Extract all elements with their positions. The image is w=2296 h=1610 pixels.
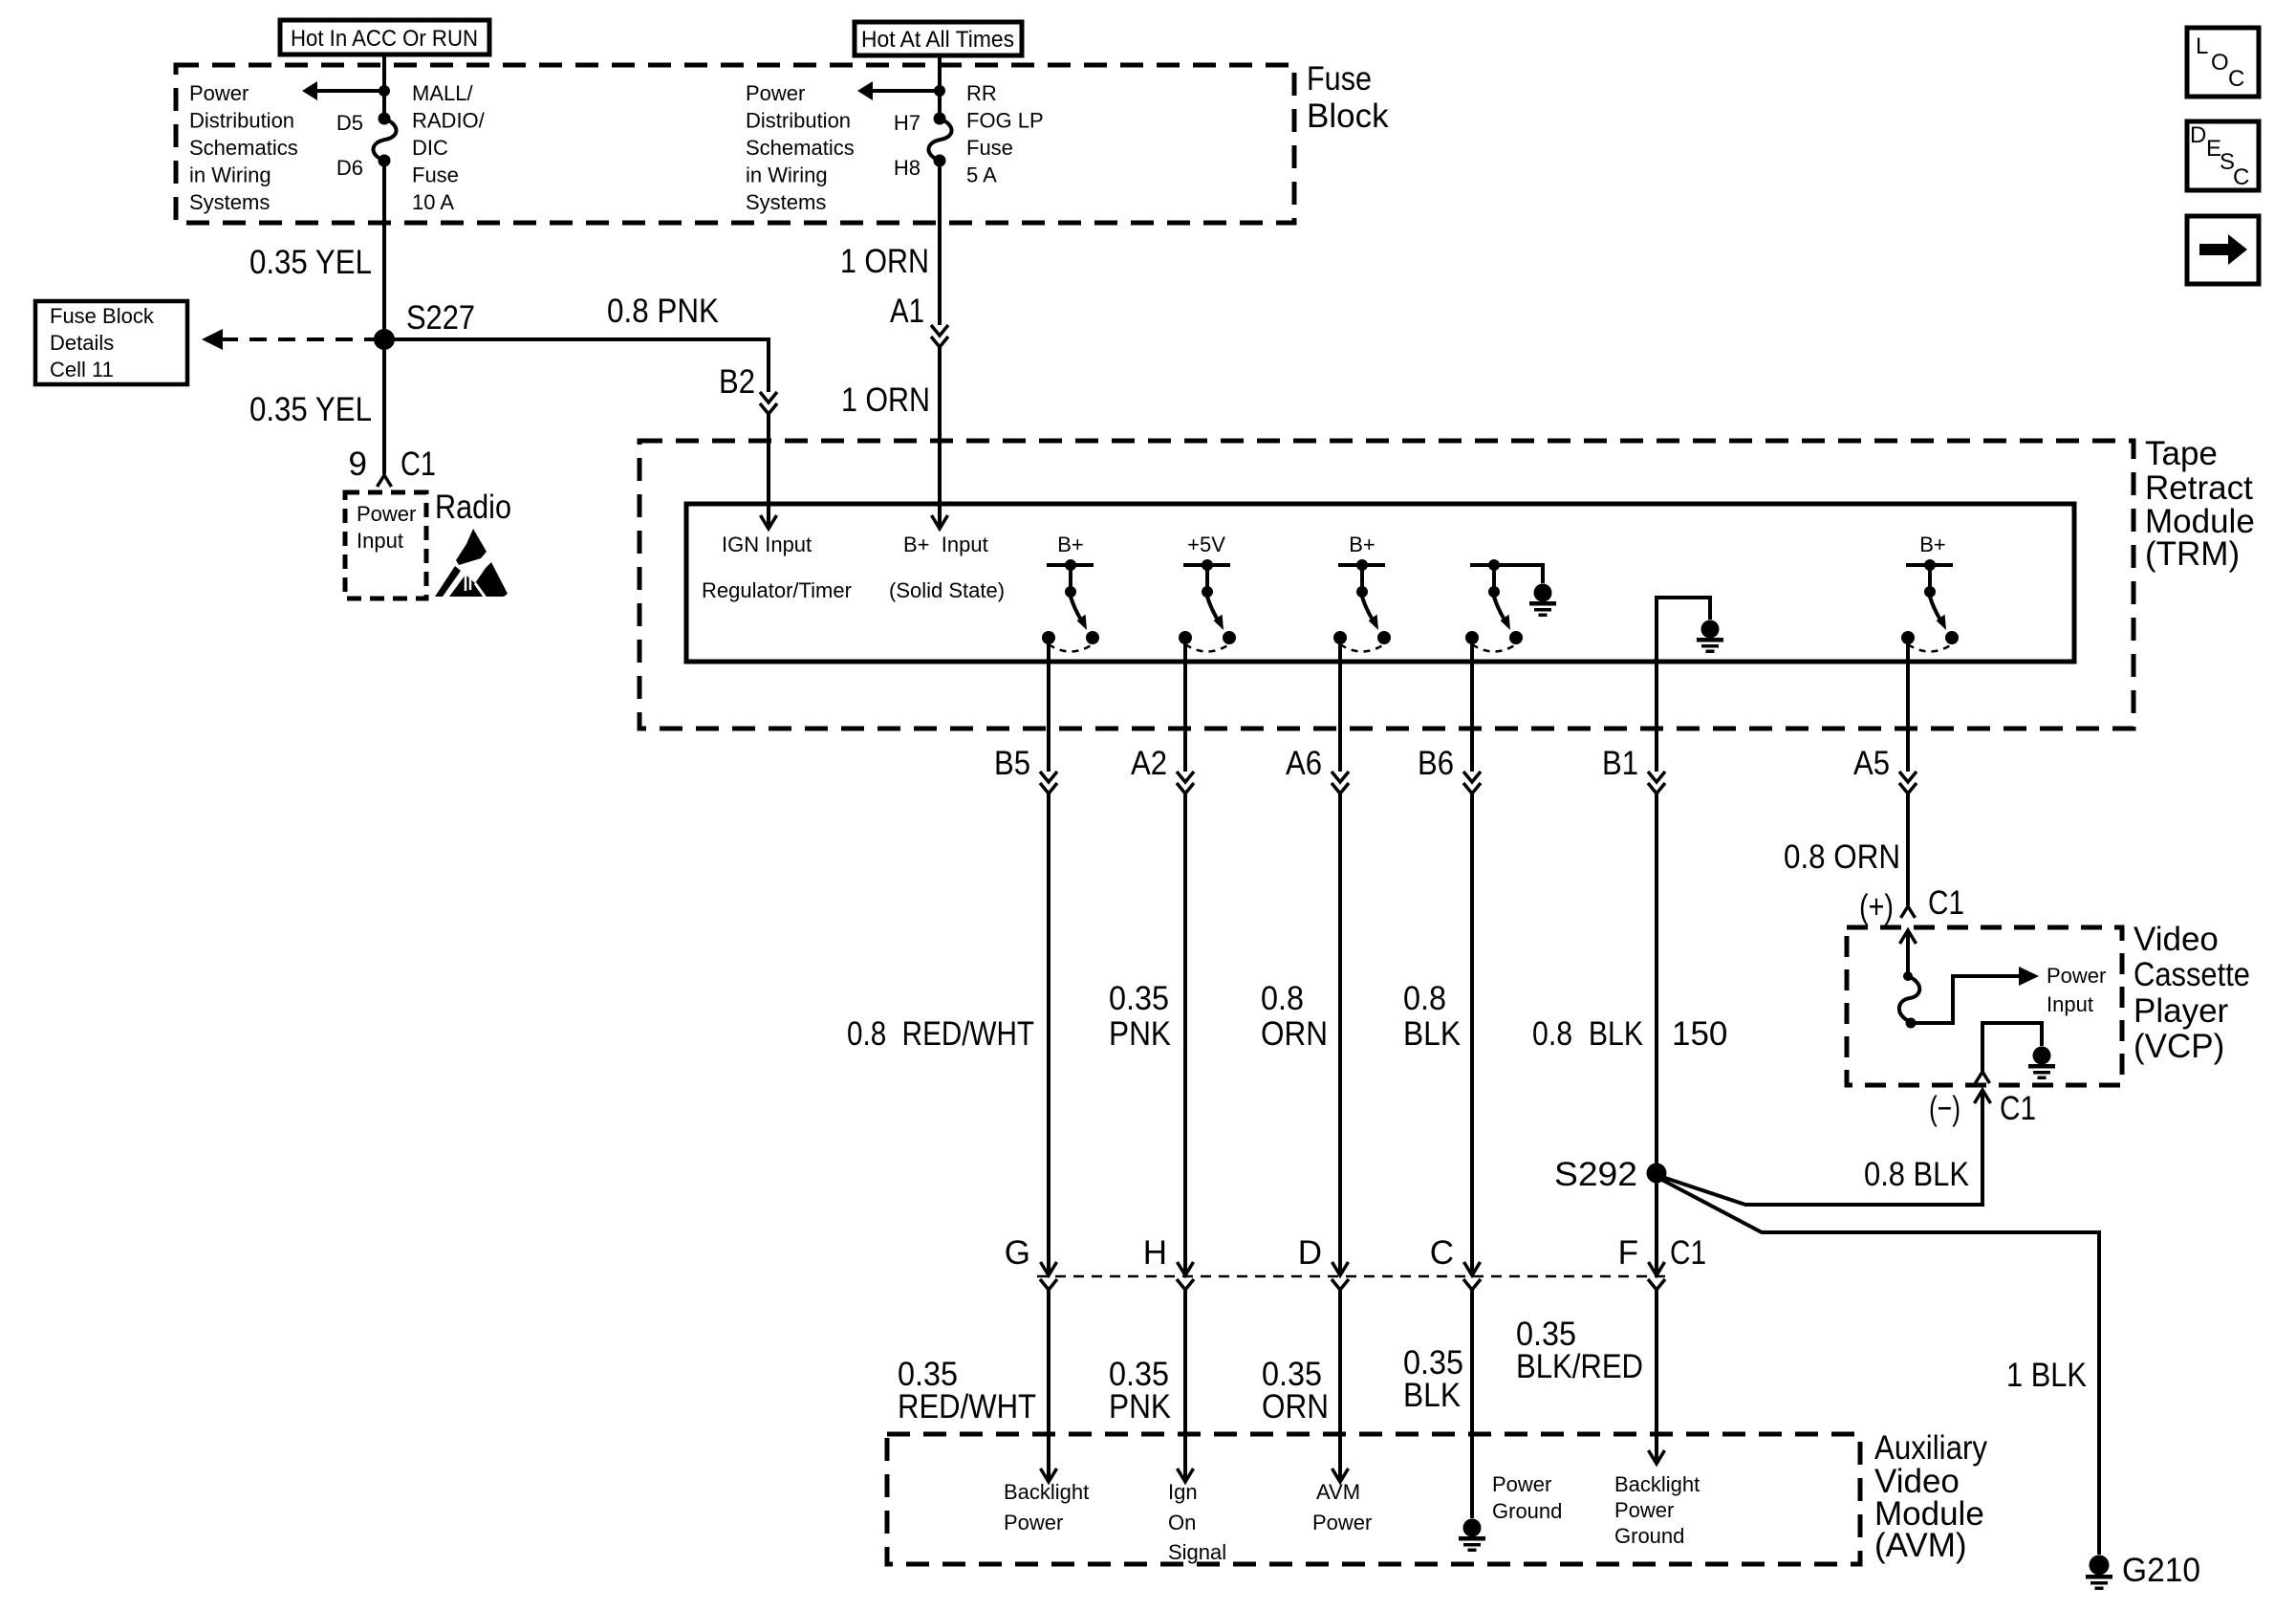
connector pin F chevron — [1648, 1279, 1665, 1290]
svg-text:G: G — [1005, 1234, 1030, 1272]
wire: F into AVM — [1655, 1290, 1658, 1464]
connector pin C chevron — [1463, 1279, 1481, 1290]
label: 0.8 BLK (mid) — [1403, 980, 1461, 1053]
label: Backlight Power — [1004, 1480, 1089, 1534]
arrow up into VCP (-) C1 — [1975, 1090, 1991, 1103]
svg-text:RED/WHT: RED/WHT — [898, 1388, 1036, 1425]
connector: A5 double chevron — [1899, 772, 1917, 794]
node: junction to power distribution arrow — [379, 85, 390, 97]
switch 2 (A2 output) — [1179, 559, 1236, 652]
legend box forward arrow — [2187, 216, 2259, 284]
label: 0.35 PNK (lower) — [1109, 1356, 1171, 1425]
svg-text:10 A: 10 A — [412, 190, 454, 214]
svg-text:C1: C1 — [401, 446, 436, 483]
svg-text:B+: B+ — [1349, 533, 1375, 556]
svg-text:Fuse: Fuse — [412, 163, 459, 187]
label: 0.35 PNK (mid) — [1109, 980, 1171, 1053]
arrow into AVM (F) — [1649, 1450, 1665, 1464]
connector pin H arrowhead — [1178, 1262, 1194, 1275]
svg-text:Player: Player — [2134, 992, 2229, 1030]
switch 6 (A5 output) — [1901, 559, 1959, 652]
connector pin G arrowhead — [1041, 1262, 1057, 1275]
label: Power Ground — [1492, 1472, 1562, 1523]
fuse block label — [1307, 60, 1389, 135]
svg-text:Schematics: Schematics — [746, 136, 855, 160]
wire: to Power Input arrow — [1911, 976, 2023, 1023]
fuse block dashed outline — [176, 65, 1294, 223]
svg-text:Schematics: Schematics — [189, 136, 298, 160]
connector pin F arrowhead — [1649, 1262, 1665, 1275]
svg-text:0.35 YEL: 0.35 YEL — [249, 244, 372, 281]
wire: Hot At All Times drop to fuse H7 — [938, 55, 942, 119]
svg-text:+5V: +5V — [1187, 533, 1225, 556]
AVM label: Auxiliary Video Module (AVM) — [1874, 1429, 1987, 1564]
svg-text:D: D — [2190, 122, 2206, 148]
connector: A1 double chevron — [931, 325, 948, 347]
switch 4 (B6 output, grounded) — [1465, 559, 1523, 652]
label: Power Input (VCP) — [2047, 964, 2106, 1016]
svg-text:H7: H7 — [894, 111, 921, 135]
svg-text:Fuse: Fuse — [1307, 60, 1372, 98]
svg-text:(+): (+) — [1859, 888, 1894, 925]
label: Ign On Signal — [1168, 1480, 1226, 1564]
wire: 1 BLK from S292 to G210 — [1658, 1178, 2099, 1555]
wire: dashed reference arrow from S227 to Fuse Block Details — [202, 329, 381, 350]
TRM dashed outline — [639, 441, 2134, 729]
svg-text:0.8 BLK: 0.8 BLK — [1532, 1015, 1643, 1053]
svg-text:B+: B+ — [1057, 533, 1084, 556]
svg-text:Regulator/Timer: Regulator/Timer — [702, 578, 852, 602]
svg-text:Power: Power — [1312, 1511, 1372, 1534]
wire: arrow to Power Distribution Schematics (right) — [857, 81, 940, 100]
svg-text:Fuse Block: Fuse Block — [50, 304, 155, 328]
svg-text:D: D — [1298, 1234, 1322, 1272]
svg-text:Ign: Ign — [1168, 1480, 1198, 1504]
svg-text:RADIO/: RADIO/ — [412, 109, 486, 133]
ground G210 — [2086, 1556, 2112, 1591]
fuse: RR FOG LP 5A (terminals H7/H8) — [928, 113, 951, 167]
svg-text:ORN: ORN — [1262, 1388, 1329, 1425]
connector: B2 double chevron — [760, 392, 777, 414]
wire: 1 ORN from fuse H8 to A1 — [938, 161, 942, 325]
arrow into B+ Input — [932, 515, 948, 529]
TRM solid inner box — [686, 504, 2074, 662]
svg-text:FOG LP: FOG LP — [966, 109, 1044, 133]
wire: B1 internal ground link — [1657, 598, 1710, 664]
svg-text:Block: Block — [1307, 98, 1389, 135]
svg-text:B+ Input: B+ Input — [903, 533, 988, 556]
svg-text:Systems: Systems — [746, 190, 826, 214]
svg-text:B+: B+ — [1919, 533, 1946, 556]
wire: A2/H run to AVM C1 — [1183, 794, 1187, 1275]
ESD sensitivity symbol — [435, 529, 508, 603]
svg-text:1 BLK: 1 BLK — [2006, 1357, 2087, 1394]
svg-text:Power: Power — [189, 81, 249, 105]
svg-text:PNK: PNK — [1109, 1015, 1171, 1053]
svg-text:Signal: Signal — [1168, 1540, 1226, 1564]
arrowhead into Power Input — [2019, 967, 2039, 986]
arrow up into VCP from (+) C1 — [1900, 930, 1917, 944]
svg-text:Hot In ACC Or RUN: Hot In ACC Or RUN — [291, 26, 478, 52]
arrow into AVM (H) — [1178, 1469, 1194, 1482]
wire: H into AVM — [1183, 1290, 1187, 1482]
AVM C1 connector dashed line — [1037, 1275, 1665, 1278]
svg-text:B5: B5 — [994, 745, 1030, 782]
label: Power Distribution Schematics in Wiring Systems (right) — [746, 81, 855, 214]
svg-text:Cassette: Cassette — [2134, 956, 2250, 993]
label: 0.8 ORN (mid) — [1261, 980, 1328, 1053]
svg-text:Distribution: Distribution — [746, 109, 851, 133]
svg-text:Distribution: Distribution — [189, 109, 294, 133]
connector fork at radio power input — [378, 475, 392, 487]
svg-text:BLK: BLK — [1403, 1377, 1461, 1414]
svg-text:Power: Power — [1614, 1498, 1674, 1522]
arrow into IGN Input — [761, 515, 777, 529]
svg-text:H: H — [1143, 1234, 1167, 1272]
svg-text:D6: D6 — [336, 156, 363, 180]
label: RR FOG LP Fuse 5 A — [966, 81, 1044, 187]
wire: D into AVM — [1338, 1290, 1342, 1482]
svg-text:1 ORN: 1 ORN — [841, 381, 930, 419]
svg-text:Video: Video — [2134, 921, 2219, 958]
wire: 0.8 BLK from S292 to VCP (-) — [1659, 1090, 1982, 1205]
VCP label: Video Cassette Player (VCP) — [2134, 921, 2250, 1065]
svg-text:Power: Power — [1004, 1511, 1063, 1534]
svg-text:Cell 11: Cell 11 — [50, 358, 114, 381]
svg-text:C: C — [2228, 66, 2244, 92]
svg-text:(Solid State): (Solid State) — [889, 578, 1005, 602]
label: 0.35 BLK (lower) — [1403, 1344, 1463, 1414]
connector: B5 double chevron — [1040, 772, 1057, 794]
wire: Hot In ACC Or RUN drop to fuse D5 — [382, 54, 386, 119]
ground (TRM B1) — [1697, 620, 1723, 654]
wire: TRM output B5 — [1047, 638, 1051, 772]
svg-text:C1: C1 — [1928, 884, 1964, 922]
svg-text:0.8 BLK: 0.8 BLK — [1864, 1156, 1969, 1193]
svg-text:S292: S292 — [1554, 1156, 1637, 1193]
svg-text:Power: Power — [746, 81, 805, 105]
VCP dashed outline — [1847, 927, 2122, 1085]
wire: C into AVM to ground — [1470, 1290, 1474, 1518]
svg-text:BLK/RED: BLK/RED — [1516, 1348, 1643, 1385]
header box: Hot At All Times — [855, 22, 1022, 55]
svg-text:(VCP): (VCP) — [2134, 1028, 2224, 1065]
svg-text:in Wiring: in Wiring — [189, 163, 271, 187]
wire: A1 into TRM B+ input — [938, 347, 942, 528]
svg-text:0.8 RED/WHT: 0.8 RED/WHT — [847, 1015, 1034, 1053]
svg-text:0.35 YEL: 0.35 YEL — [249, 391, 372, 428]
svg-text:D5: D5 — [336, 111, 363, 135]
AVM dashed outline — [887, 1434, 1860, 1564]
svg-text:in Wiring: in Wiring — [746, 163, 828, 187]
switch 3 (A6 output) — [1333, 559, 1391, 652]
svg-text:G210: G210 — [2122, 1552, 2200, 1589]
svg-text:MALL/: MALL/ — [412, 81, 473, 105]
connector pin D chevron — [1332, 1279, 1349, 1290]
TRM label: Tape Retract Module (TRM) — [2145, 435, 2255, 573]
svg-text:0.8 PNK: 0.8 PNK — [607, 293, 719, 330]
svg-text:9: 9 — [349, 446, 367, 483]
svg-text:Fuse: Fuse — [966, 136, 1013, 160]
ground (VCP internal) — [2028, 1047, 2055, 1080]
svg-text:Radio: Radio — [435, 489, 511, 526]
wire: TRM output A6 — [1338, 638, 1342, 772]
svg-text:(TRM): (TRM) — [2145, 535, 2240, 573]
svg-text:Auxiliary: Auxiliary — [1874, 1429, 1987, 1467]
svg-text:PNK: PNK — [1109, 1388, 1171, 1425]
connector pin D arrowhead — [1332, 1262, 1349, 1275]
svg-text:Details: Details — [50, 331, 114, 355]
wire: B6/C run to AVM C1 — [1470, 794, 1474, 1275]
connector fork at VCP (-) C1 — [1976, 1072, 1990, 1083]
svg-text:Power: Power — [2047, 964, 2106, 988]
svg-text:Retract: Retract — [2145, 469, 2253, 507]
svg-text:H8: H8 — [894, 156, 921, 180]
wire: A6/D run to AVM C1 — [1338, 794, 1342, 1275]
svg-text:B1: B1 — [1602, 745, 1638, 782]
box: radio power input (dashed) — [345, 492, 426, 598]
label: Power Distribution Schematics in Wiring Systems (left) — [189, 81, 298, 214]
svg-text:A5: A5 — [1853, 745, 1890, 782]
svg-text:Hot At All Times: Hot At All Times — [861, 27, 1014, 53]
svg-text:IGN Input: IGN Input — [722, 533, 812, 556]
connector pin H chevron — [1177, 1279, 1194, 1290]
box: Fuse Block Details Cell 11 — [35, 301, 187, 384]
svg-text:Backlight: Backlight — [1004, 1480, 1089, 1504]
svg-text:Input: Input — [2047, 992, 2093, 1016]
wire: switch 4 bar to internal ground — [1517, 565, 1543, 583]
wire: TRM output A5 — [1906, 638, 1910, 772]
svg-text:AVM: AVM — [1316, 1480, 1360, 1504]
connector: B6 double chevron — [1463, 772, 1481, 794]
ground (AVM power ground) — [1459, 1519, 1485, 1553]
connector pin C arrowhead — [1464, 1262, 1481, 1275]
svg-text:A1: A1 — [890, 293, 924, 330]
fuse: MALL/RADIO/DIC 10A (terminals D5/D6) — [373, 113, 396, 167]
wire: B5/G run to AVM C1 — [1047, 794, 1051, 1275]
wire: G into AVM — [1047, 1290, 1051, 1482]
svg-text:DIC: DIC — [412, 136, 448, 160]
label: AVM Power — [1312, 1480, 1372, 1534]
svg-text:O: O — [2211, 50, 2229, 76]
svg-text:Systems: Systems — [189, 190, 270, 214]
wire: VCP internal feed — [1906, 930, 1910, 976]
legend box DESC — [2187, 121, 2259, 190]
header box: Hot In ACC Or RUN — [280, 20, 489, 54]
svg-text:(−): (−) — [1929, 1090, 1960, 1127]
wire: 0.8 PNK from S227 right and down to B2 — [384, 339, 769, 392]
node S227 — [374, 329, 395, 350]
svg-text:5 A: 5 A — [966, 163, 997, 187]
wire: arrow to Power Distribution Schematics (left) — [302, 81, 384, 100]
wire: VCP ground branch — [1982, 1023, 2042, 1072]
label: 0.35 RED/WHT — [898, 1356, 1036, 1425]
wire: 0.35 YEL from fuse D6 to S227 — [382, 161, 386, 339]
fuse squiggle inside VCP — [1899, 971, 1919, 1029]
wire: TRM output B1 — [1655, 638, 1658, 772]
svg-text:Ground: Ground — [1492, 1499, 1562, 1523]
arrow into AVM (D) — [1332, 1469, 1349, 1482]
svg-text:C: C — [1430, 1234, 1454, 1272]
label: MALL/RADIO/DIC Fuse 10 A — [412, 81, 486, 214]
label: 0.35 ORN (lower) — [1262, 1356, 1329, 1425]
svg-text:0.35: 0.35 — [1109, 980, 1169, 1017]
svg-text:Backlight: Backlight — [1614, 1472, 1700, 1496]
svg-text:1 ORN: 1 ORN — [840, 243, 929, 280]
svg-text:F: F — [1618, 1234, 1638, 1272]
svg-text:B2: B2 — [719, 363, 755, 401]
svg-text:ORN: ORN — [1261, 1015, 1328, 1053]
svg-text:Power: Power — [357, 502, 416, 526]
svg-text:L: L — [2196, 33, 2208, 59]
connector: A6 double chevron — [1332, 772, 1349, 794]
svg-text:RR: RR — [966, 81, 997, 105]
connector fork at VCP (+) C1 — [1901, 906, 1916, 918]
arrow into AVM (G) — [1041, 1469, 1057, 1482]
connector: A2 double chevron — [1177, 772, 1194, 794]
connector: B1 double chevron — [1648, 772, 1665, 794]
svg-text:C1: C1 — [1670, 1234, 1706, 1272]
wire: B1/F continues from S292 to AVM C1 — [1655, 1173, 1658, 1275]
wire: B2 into TRM IGN input — [767, 414, 770, 528]
connector pin G chevron — [1040, 1279, 1057, 1290]
switch 1 (B5 output) — [1042, 559, 1099, 652]
label: 0.8 BLK 150 — [1532, 1015, 1727, 1053]
svg-text:BLK: BLK — [1403, 1015, 1461, 1053]
svg-text:Power: Power — [1492, 1472, 1551, 1496]
node: junction to power distribution arrow (right) — [934, 85, 945, 97]
svg-text:(AVM): (AVM) — [1874, 1527, 1967, 1564]
wire: A5 run to VCP (+) C1 — [1906, 794, 1910, 905]
svg-text:C: C — [2233, 164, 2249, 190]
wire: 0.35 YEL from S227 to radio connector — [382, 339, 386, 474]
wire: TRM output B6 — [1470, 638, 1474, 772]
wire: TRM output A2 — [1183, 638, 1187, 772]
ground (TRM switch 4) — [1529, 584, 1556, 618]
svg-text:C1: C1 — [2000, 1090, 2036, 1127]
svg-text:Ground: Ground — [1614, 1524, 1684, 1548]
svg-text:0.8: 0.8 — [1261, 980, 1304, 1017]
node S292 — [1647, 1164, 1667, 1184]
svg-text:S227: S227 — [406, 299, 475, 337]
svg-text:A2: A2 — [1131, 745, 1167, 782]
svg-text:150: 150 — [1672, 1015, 1727, 1053]
label: Backlight Power Ground — [1614, 1472, 1700, 1548]
svg-text:On: On — [1168, 1511, 1196, 1534]
wire: B1 run to S292 — [1655, 794, 1658, 1173]
svg-text:0.8: 0.8 — [1403, 980, 1446, 1017]
svg-text:B6: B6 — [1418, 745, 1454, 782]
legend box LOC — [2187, 28, 2259, 97]
svg-text:A6: A6 — [1286, 745, 1322, 782]
svg-text:0.8 ORN: 0.8 ORN — [1784, 838, 1900, 876]
svg-text:Input: Input — [357, 529, 403, 553]
label: 0.35 BLK/RED — [1516, 1316, 1643, 1385]
svg-text:Tape: Tape — [2145, 435, 2218, 472]
